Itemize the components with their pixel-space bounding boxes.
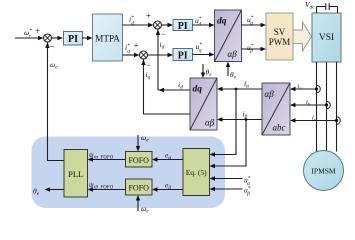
svg-text:FOFO: FOFO bbox=[128, 156, 149, 165]
svg-text:iβ: iβ bbox=[243, 110, 248, 121]
svg-text:id: id bbox=[160, 40, 165, 51]
svg-text:PI: PI bbox=[178, 21, 188, 32]
svg-text:id: id bbox=[178, 80, 183, 91]
svg-text:FOFO: FOFO bbox=[128, 184, 149, 193]
svg-text:Vdc: Vdc bbox=[305, 0, 315, 11]
svg-text:ic: ic bbox=[312, 114, 316, 122]
svg-text:PLL: PLL bbox=[68, 169, 83, 179]
svg-text:PI: PI bbox=[178, 50, 188, 61]
svg-text:θe: θe bbox=[230, 70, 237, 81]
svg-text:αβ: αβ bbox=[265, 89, 275, 99]
svg-text:PWM: PWM bbox=[269, 37, 291, 47]
svg-text:MTPA: MTPA bbox=[95, 33, 120, 43]
svg-text:iq: iq bbox=[146, 70, 151, 81]
svg-text:ωe: ωe bbox=[141, 133, 149, 144]
svg-text:+: + bbox=[35, 26, 40, 36]
svg-text:θe: θe bbox=[206, 68, 213, 79]
svg-text:dq: dq bbox=[217, 17, 227, 27]
svg-text:+: + bbox=[146, 11, 151, 21]
svg-text:Eq. (5): Eq. (5) bbox=[186, 168, 207, 177]
svg-text:u*d: u*d bbox=[195, 16, 202, 28]
svg-text:abc: abc bbox=[273, 123, 286, 133]
svg-text:SV: SV bbox=[274, 27, 286, 37]
svg-text:αβ: αβ bbox=[228, 49, 238, 59]
svg-text:u*β: u*β bbox=[247, 43, 254, 55]
svg-text:αβ: αβ bbox=[205, 118, 215, 128]
svg-text:+: + bbox=[134, 41, 139, 51]
svg-text:−: − bbox=[146, 60, 151, 70]
svg-text:−: − bbox=[50, 42, 55, 52]
svg-text:VSI: VSI bbox=[319, 33, 334, 43]
svg-text:PI: PI bbox=[68, 34, 78, 45]
svg-text:−: − bbox=[161, 29, 166, 39]
svg-text:IPMSM: IPMSM bbox=[311, 167, 336, 176]
svg-text:ωe: ωe bbox=[50, 60, 58, 71]
svg-text:u*q: u*q bbox=[196, 42, 203, 54]
svg-text:iα: iα bbox=[244, 79, 249, 90]
svg-text:u*β: u*β bbox=[244, 185, 251, 197]
svg-text:dq: dq bbox=[193, 85, 203, 95]
svg-text:i*q: i*q bbox=[125, 43, 130, 55]
